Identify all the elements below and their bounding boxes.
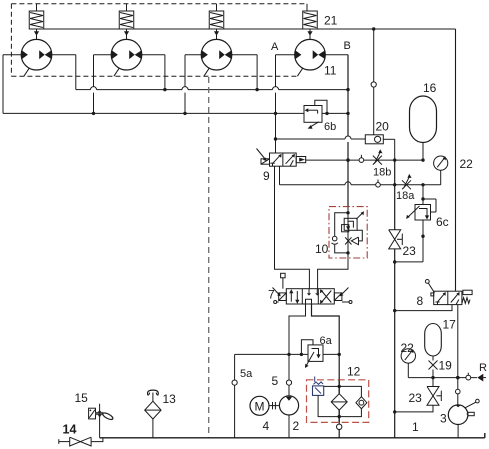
test point on R line: [466, 373, 471, 380]
wire valve8 left port to return column: [395, 305, 452, 311]
label 17: [443, 318, 457, 332]
wire motor1 left port down: [2, 55, 4, 114]
wire valve9 to 18a line: [279, 166, 281, 185]
svg-text:23: 23: [403, 244, 417, 258]
main tank line: [100, 433, 485, 438]
label B: [344, 40, 351, 52]
brake cylinder 21 (motor 4): [303, 4, 318, 40]
label 19: [439, 359, 453, 373]
test point on comp20 column: [371, 82, 376, 87]
label 8: [417, 294, 424, 308]
R port connector: [477, 374, 486, 382]
test point on 18a line: [376, 180, 381, 188]
label 22 lower: [401, 341, 415, 355]
electric motor 4 (M): [250, 396, 279, 415]
wire valve9 top from A: [275, 139, 277, 153]
wire A to comp20: [276, 136, 366, 139]
svg-text:6c: 6c: [436, 215, 449, 229]
pressure reducing block 10 (dash-dot frame): [329, 207, 367, 258]
label 4: [263, 419, 270, 433]
check point 5: [286, 354, 291, 396]
filter block 12 (dashed frame): [307, 380, 369, 423]
wire motor1 right port down: [75, 55, 77, 90]
svg-text:20: 20: [376, 120, 390, 134]
hand pump 3: [448, 399, 479, 437]
svg-text:6a: 6a: [320, 335, 333, 347]
svg-text:12: 12: [347, 365, 361, 379]
svg-text:14: 14: [63, 423, 77, 437]
label 15: [75, 391, 89, 405]
breather filter 13: [145, 390, 161, 438]
label 2: [293, 419, 300, 433]
drain line (dashed) to tank: [208, 77, 210, 438]
svg-text:2: 2: [293, 419, 300, 433]
middle return column: [393, 160, 396, 438]
hydraulic motor 2: [94, 39, 165, 76]
relief valve 6a: [301, 340, 323, 368]
wire B column (motor4 right): [346, 55, 349, 207]
svg-text:R: R: [479, 362, 487, 374]
pump 2: [279, 396, 298, 438]
wire valve8 right port down to hand pump: [456, 305, 459, 390]
relief valve 6b: [304, 100, 329, 129]
label 5a: [240, 368, 253, 380]
wire motor3 left column: [184, 55, 186, 114]
label 6c: [436, 215, 449, 229]
svg-text:B: B: [344, 40, 351, 52]
hydraulic motor 1: [3, 39, 76, 76]
label 21: [324, 14, 338, 28]
brake release pilot line: [37, 27, 456, 30]
svg-text:16: 16: [423, 81, 437, 95]
component 20 (inline valve block): [365, 135, 383, 144]
label 23 upper: [403, 244, 417, 258]
label 14: [63, 423, 77, 437]
svg-text:5a: 5a: [240, 368, 253, 380]
label 23 lower: [409, 391, 423, 405]
label A: [271, 41, 279, 53]
wire comp20 to middle column: [383, 139, 394, 160]
svg-text:3: 3: [440, 412, 447, 426]
label R: [479, 362, 487, 374]
label 12: [347, 365, 361, 379]
svg-text:22: 22: [401, 341, 415, 355]
svg-text:5: 5: [272, 374, 279, 388]
filter block 12 internals: [313, 377, 367, 423]
svg-text:19: 19: [439, 359, 453, 373]
reducing valve 10 internals: [332, 207, 365, 259]
18b line (valve9 to accumulator circuit): [306, 158, 425, 161]
top feed line to right column: [455, 29, 457, 291]
directional valve 8: [425, 280, 472, 305]
accumulator 17: [425, 324, 442, 361]
svg-text:7: 7: [268, 288, 275, 302]
drain valve 14: [59, 437, 103, 446]
R port line: [408, 376, 477, 379]
hydraulic motor 3: [185, 39, 257, 76]
pressure gauge 22 (upper): [434, 156, 448, 170]
svg-text:6b: 6b: [324, 121, 336, 133]
hydraulic motor 11 (motor 4): [276, 39, 349, 76]
label 22 upper: [460, 157, 474, 171]
svg-text:4: 4: [263, 419, 270, 433]
label 18b: [373, 167, 391, 179]
18a line: [280, 170, 441, 186]
svg-text:13: 13: [163, 392, 177, 406]
shut-off valve 23 (upper): [389, 230, 403, 249]
suction column with test point 5a: [232, 354, 237, 437]
accumulator 16: [410, 96, 437, 160]
svg-text:23: 23: [409, 391, 423, 405]
pressure gauge 22 (lower): [401, 349, 415, 378]
label 7: [268, 288, 275, 302]
svg-text:15: 15: [75, 391, 89, 405]
directional valve 7: [273, 273, 353, 304]
test point on 18b line: [359, 155, 364, 163]
label 9: [263, 169, 270, 183]
svg-text:8: 8: [417, 294, 424, 308]
label 11: [324, 64, 337, 78]
shut-off valve 23 (lower): [395, 378, 442, 412]
brake cylinder (motor 1): [29, 4, 44, 40]
label 10: [315, 242, 329, 256]
wire motor2 right column: [164, 55, 166, 90]
label 20: [376, 120, 390, 134]
lower bus (left ports line): [3, 112, 350, 115]
svg-text:17: 17: [443, 318, 457, 332]
wire comp20 top column: [373, 29, 375, 135]
label 13: [163, 392, 177, 406]
label 6b: [324, 121, 336, 133]
upper bus (right ports line): [76, 87, 350, 92]
svg-text:10: 10: [315, 242, 329, 256]
svg-text:22: 22: [460, 157, 474, 171]
label 1: [412, 420, 419, 434]
throttle 18b: [373, 149, 383, 164]
brake cylinder (motor 3): [209, 4, 224, 40]
label 3: [440, 412, 447, 426]
wire motor2 left column: [93, 55, 95, 114]
wire A column (motor4 left): [274, 55, 277, 153]
svg-text:11: 11: [324, 64, 337, 78]
directional valve 9: [257, 149, 307, 167]
svg-text:21: 21: [324, 14, 338, 28]
wire valve9 to valve7 (P feed): [275, 166, 310, 289]
test point under filter block: [337, 422, 342, 437]
check ball above hand pump: [456, 389, 461, 405]
wire motor3 right column: [256, 55, 258, 90]
svg-text:A: A: [271, 41, 279, 53]
drain enclosure (dashed case boundary): [11, 4, 306, 77]
label 18a: [396, 190, 415, 202]
svg-text:1: 1: [412, 420, 419, 434]
throttle 18a: [402, 174, 412, 189]
label 5: [272, 374, 279, 388]
level gauge 15: [89, 404, 114, 438]
svg-text:9: 9: [263, 169, 270, 183]
svg-text:18a: 18a: [396, 190, 415, 202]
throttle 19: [429, 361, 438, 378]
wire valve7 T port to filter column: [312, 304, 340, 380]
relief valve 6c: [393, 185, 436, 264]
pump pressure line: [235, 353, 341, 356]
wire valve7 P port to pump line: [289, 304, 306, 354]
wire block10 to valve7: [318, 258, 348, 289]
svg-text:M: M: [255, 399, 265, 413]
brake cylinder (motor 2): [119, 4, 134, 40]
label 6a: [320, 335, 333, 347]
label 16: [423, 81, 437, 95]
svg-text:18b: 18b: [373, 167, 391, 179]
